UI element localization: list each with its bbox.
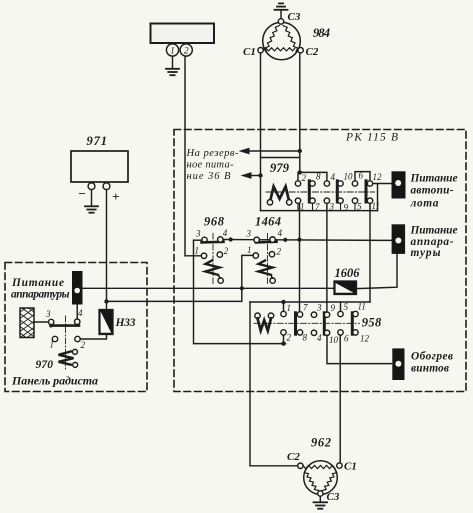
spring of 970: [59, 349, 78, 367]
wire 979-11 down to 958 top edge: [369, 203, 371, 302]
svg-text:2: 2: [184, 47, 189, 57]
contact labels of 968: [195, 228, 229, 256]
svg-text:1: 1: [247, 245, 252, 255]
stub 958 terminal 5 to top edge: [340, 302, 342, 311]
svg-text:C3: C3: [288, 11, 301, 23]
relay 958 coil W: [255, 313, 274, 331]
svg-text:4: 4: [78, 308, 83, 318]
svg-text:3: 3: [45, 309, 51, 319]
svg-text:РК 115 В: РК 115 В: [345, 132, 398, 144]
wire fuse 1606 to right indicator: [357, 254, 398, 289]
svg-text:1: 1: [50, 340, 55, 350]
svg-text:9: 9: [344, 203, 349, 213]
svg-text:2: 2: [277, 247, 282, 257]
bus wire 968-4 / 1464-3 / 1464-4 to 979-11 drop: [218, 237, 392, 243]
ground under battery minus: [85, 190, 98, 213]
svg-text:3: 3: [246, 229, 252, 239]
indicator lamp Обогрев винтов: [392, 348, 404, 380]
switch 970: [49, 316, 81, 369]
relay 979 box: [261, 158, 378, 211]
label Питание аппаратуры (panel): [11, 277, 70, 301]
svg-text:Питание: Питание: [410, 224, 458, 236]
svg-text:984: 984: [313, 26, 330, 40]
wire pin2 to switch 968 terminal 1: [185, 56, 201, 256]
wire fuse bottom to switch 970 terminal 2: [80, 335, 106, 340]
ground under 962 C3: [314, 496, 328, 509]
svg-text:12: 12: [360, 334, 370, 344]
svg-text:2: 2: [302, 173, 307, 183]
svg-text:−: −: [78, 186, 86, 201]
ground above 984 C3: [275, 3, 288, 18]
svg-text:3: 3: [316, 303, 322, 313]
svg-text:6: 6: [359, 171, 364, 181]
svg-text:Питание: Питание: [11, 277, 64, 289]
wire line A: panel indicator to fuse 1606: [83, 286, 335, 290]
svg-text:винтов: винтов: [411, 363, 449, 375]
svg-text:C2: C2: [306, 46, 319, 58]
label Обогрев винтов: [411, 350, 453, 374]
svg-text:8: 8: [303, 333, 308, 343]
svg-text:ное пита-: ное пита-: [187, 159, 234, 170]
svg-text:4: 4: [317, 333, 322, 343]
svg-text:7: 7: [315, 202, 320, 212]
svg-text:1: 1: [300, 202, 305, 212]
svg-text:C3: C3: [327, 491, 340, 503]
switch 1464: [253, 234, 276, 285]
svg-text:9: 9: [331, 303, 336, 313]
fuse 1606: [334, 281, 357, 295]
svg-text:2: 2: [287, 333, 292, 343]
switch 968: [201, 234, 223, 285]
relay 958 box: [250, 302, 370, 344]
wire 958-10 to heater indicator: [327, 336, 392, 364]
svg-text:3: 3: [329, 202, 335, 212]
svg-text:958: 958: [362, 316, 382, 330]
relay 979 coil М: [267, 187, 292, 206]
contact labels of 1464: [246, 228, 283, 257]
svg-text:ние 36 В: ние 36 В: [187, 171, 232, 182]
svg-text:+: +: [112, 189, 119, 204]
battery 971: [71, 151, 128, 190]
wire battery plus down to junction: [106, 190, 108, 310]
svg-text:4: 4: [331, 172, 336, 182]
fuse Н33: [99, 310, 113, 335]
svg-text:1: 1: [287, 303, 292, 313]
svg-text:971: 971: [87, 134, 108, 148]
svg-text:970: 970: [36, 359, 54, 371]
box РК 115 В: [174, 130, 466, 392]
wire line B: battery junction to line A riser: [107, 288, 242, 301]
wire line A riser to 1464 terminal 1: [242, 255, 253, 288]
svg-text:5: 5: [357, 202, 362, 212]
svg-text:1606: 1606: [335, 266, 361, 280]
relay 958 contact block: [254, 311, 360, 335]
filter 984: [258, 19, 303, 60]
svg-text:6: 6: [344, 334, 349, 344]
svg-text:12: 12: [373, 172, 383, 182]
wire 958 bottom corner down to 962 C2: [250, 344, 298, 466]
svg-text:туры: туры: [411, 247, 441, 259]
label На резервное питание 36 В: [186, 148, 239, 182]
svg-text:2: 2: [81, 340, 86, 350]
filter 962: [298, 461, 342, 496]
panel box (Панель радиста): [5, 263, 147, 392]
svg-text:4: 4: [223, 228, 228, 238]
svg-text:11: 11: [358, 302, 366, 312]
svg-text:10: 10: [344, 172, 354, 182]
svg-text:3: 3: [195, 229, 201, 239]
svg-text:5: 5: [344, 302, 349, 312]
svg-text:1: 1: [195, 246, 200, 256]
svg-text:лота: лота: [410, 198, 439, 210]
svg-text:962: 962: [311, 436, 331, 450]
junction battery/fuse/bus: [104, 299, 108, 303]
svg-text:Обогрев: Обогрев: [411, 350, 453, 362]
wire 984 C2 down to relay 979 bracket: [299, 53, 301, 172]
indicator lamp (panel): [72, 271, 83, 305]
svg-text:979: 979: [270, 161, 290, 175]
jumper bracket 6-12 of 979: [355, 172, 370, 181]
svg-text:11: 11: [372, 201, 380, 211]
indicator lamp Питание аппаратуры (right): [392, 224, 406, 254]
relay 979 contact block: [266, 181, 375, 211]
spring of 968: [206, 261, 224, 284]
arrow to reserve feed (lower): [241, 172, 263, 179]
svg-text:аппаратуры: аппаратуры: [11, 289, 70, 301]
jumper bracket 2-4 of 979: [298, 170, 327, 181]
contact labels of 970: [45, 308, 86, 350]
wire 958-6 down to 962 C1: [339, 335, 341, 463]
wire indicator to 970 terminal 4: [76, 305, 78, 319]
svg-text:1464: 1464: [255, 215, 281, 229]
svg-text:968: 968: [204, 215, 225, 229]
wire 984 C1 down (becomes relay 979 box left edge): [260, 53, 262, 158]
contact numbers of 979: [300, 171, 382, 213]
svg-text:4: 4: [278, 228, 283, 238]
svg-text:10: 10: [329, 335, 339, 345]
svg-text:автопи-: автопи-: [411, 184, 454, 196]
wire branch line A down to 958 bottom wire: [194, 240, 286, 346]
ground under pin 1: [166, 56, 179, 75]
label Питание автопилота: [410, 172, 458, 209]
indicator lamp Питание автопилота: [392, 171, 406, 198]
unit top (pins 1,2): [151, 24, 215, 57]
svg-text:8: 8: [316, 172, 321, 182]
svg-text:1: 1: [170, 47, 175, 57]
spring of 1464: [259, 261, 276, 284]
svg-text:Питание: Питание: [410, 172, 458, 184]
label Питание аппаратуры (right): [410, 224, 458, 259]
stub 958 terminal 1 to top edge: [281, 300, 285, 312]
svg-text:На резерв-: На резерв-: [186, 148, 239, 159]
wire 979-3 down to 958-9: [326, 203, 328, 312]
svg-text:Н33: Н33: [115, 317, 136, 329]
connector (panel): [20, 308, 34, 338]
wire connector to 970 terminal 3: [34, 321, 49, 323]
wire 968 terminal 3 to branch: [194, 239, 203, 241]
svg-text:2: 2: [224, 246, 229, 256]
contact numbers of 958: [287, 302, 370, 346]
wire 979-1 down to 958-7: [299, 203, 301, 311]
svg-text:C2: C2: [287, 451, 300, 463]
arrow to reserve feed (upper): [239, 148, 302, 155]
svg-text:C1: C1: [243, 46, 256, 58]
svg-text:C1: C1: [344, 461, 357, 473]
svg-text:Панель радиста: Панель радиста: [11, 374, 98, 388]
svg-text:7: 7: [303, 303, 308, 313]
wire 979 terminal 12 to autopilot indicator: [373, 183, 393, 185]
